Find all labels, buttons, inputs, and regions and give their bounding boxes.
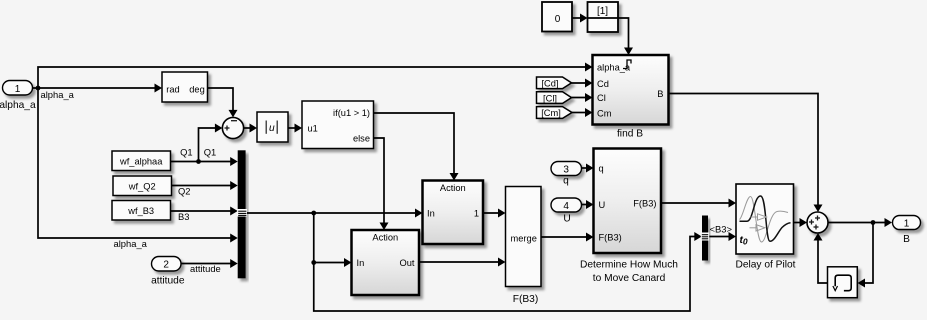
svg-text:t0: t0 (740, 235, 748, 247)
svg-text:B: B (903, 234, 910, 245)
svg-text:Q1: Q1 (180, 147, 193, 158)
svg-text:2: 2 (163, 260, 169, 271)
svg-text:Out: Out (400, 258, 415, 268)
svg-text:else: else (353, 134, 370, 144)
svg-text:q: q (563, 176, 569, 187)
svg-text:Q1: Q1 (204, 147, 217, 158)
svg-text:1: 1 (904, 219, 910, 230)
svg-text:Action: Action (372, 233, 398, 243)
svg-text:Action: Action (440, 183, 466, 193)
svg-text:[Cm]: [Cm] (541, 108, 561, 118)
svg-text:q: q (599, 164, 604, 174)
svg-text:B3: B3 (178, 211, 189, 222)
svg-text:wf_Q2: wf_Q2 (128, 182, 156, 192)
svg-text:alpha_a: alpha_a (41, 89, 75, 100)
svg-text:Delay of Pilot: Delay of Pilot (735, 260, 795, 271)
svg-text:u1: u1 (308, 124, 318, 134)
svg-text:Cl: Cl (597, 93, 606, 103)
svg-text:attitude: attitude (190, 263, 221, 274)
svg-text:[Cl]: [Cl] (543, 93, 557, 103)
svg-text:rad: rad (166, 85, 179, 95)
svg-text:3: 3 (563, 165, 569, 176)
svg-text:In: In (427, 209, 435, 219)
svg-text:1: 1 (474, 209, 479, 219)
svg-text:B: B (657, 89, 663, 99)
svg-text:Determine How Much: Determine How Much (580, 260, 678, 271)
svg-text:to Move Canard: to Move Canard (593, 273, 666, 284)
svg-text:F(B3): F(B3) (599, 233, 622, 243)
svg-text:find B: find B (617, 129, 643, 140)
svg-text:u: u (269, 123, 275, 134)
svg-text:alpha_a: alpha_a (0, 100, 36, 111)
svg-text:U: U (563, 214, 570, 225)
svg-text:wf_B3: wf_B3 (127, 206, 154, 216)
svg-text:[Cd]: [Cd] (541, 79, 558, 89)
svg-text:Q2: Q2 (178, 186, 191, 197)
svg-text:deg: deg (189, 85, 205, 95)
svg-text:F(B3): F(B3) (513, 294, 538, 305)
svg-text:alpha_a: alpha_a (597, 63, 631, 73)
svg-text:U: U (599, 200, 606, 210)
svg-text:4: 4 (563, 201, 569, 212)
svg-text:Cd: Cd (597, 79, 609, 89)
svg-text:attitude: attitude (151, 276, 185, 287)
svg-text:F(B3): F(B3) (633, 199, 656, 209)
svg-text:[1]: [1] (597, 6, 608, 17)
svg-text:wf_alphaa: wf_alphaa (119, 157, 163, 167)
svg-text:<B3>: <B3> (710, 224, 733, 235)
svg-text:alpha_a: alpha_a (114, 238, 148, 249)
svg-text:if(u1 > 1): if(u1 > 1) (333, 108, 370, 118)
svg-text:merge: merge (511, 234, 537, 244)
svg-text:In: In (357, 258, 365, 268)
svg-text:0: 0 (555, 14, 561, 25)
svg-text:1: 1 (15, 84, 21, 95)
svg-text:Cm: Cm (597, 109, 612, 119)
